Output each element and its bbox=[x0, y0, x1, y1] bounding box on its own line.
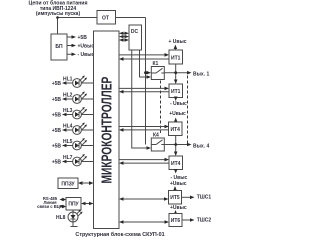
wire: OT to relay rail bbox=[116, 17, 146, 19]
svg-text:HL8: HL8 bbox=[56, 215, 66, 221]
wire: RS485 to PPU line2 bbox=[62, 206, 64, 208]
led HL8 bbox=[56, 210, 83, 227]
wire: IT5 up arrow bbox=[174, 189, 176, 192]
svg-text:Вых. 1: Вых. 1 bbox=[193, 72, 209, 78]
wire: dashed continuation relays bbox=[160, 81, 162, 134]
wire: RS485 to PPU line1 bbox=[62, 199, 64, 201]
led HL7 bbox=[52, 154, 94, 166]
svg-text:+5В: +5В bbox=[52, 128, 62, 134]
wire: IT1 bottom to out node to IT2 top bbox=[175, 64, 177, 80]
svg-text:DC: DC bbox=[131, 29, 139, 35]
svg-text:+5В: +5В bbox=[52, 143, 62, 149]
wire: PPU-MCU bbox=[85, 203, 91, 205]
svg-text:+5В: +5В bbox=[52, 112, 62, 118]
svg-text:HL7: HL7 bbox=[63, 155, 73, 161]
ground bbox=[71, 226, 78, 228]
svg-text:ОТ: ОТ bbox=[102, 16, 109, 22]
svg-text:ППУ: ППУ bbox=[68, 202, 79, 208]
block PPZU bbox=[58, 178, 78, 189]
wire: BP out +Uvys bbox=[67, 45, 72, 47]
svg-text:HL2: HL2 bbox=[63, 93, 73, 99]
wire: MCU to IT2 control bbox=[119, 87, 165, 89]
wire: K1 entry dot from OT rail bbox=[146, 72, 148, 74]
svg-text:- Uвыс: - Uвыс bbox=[78, 52, 95, 58]
svg-text:+Uвыс: +Uвыс bbox=[78, 43, 95, 49]
svg-text:- Uвыс: - Uвыс bbox=[170, 101, 187, 107]
svg-text:ТШС1: ТШС1 bbox=[197, 195, 212, 201]
block IT4 bbox=[169, 156, 183, 170]
wire: MCU to IT4 control bbox=[119, 159, 165, 161]
wire: IT2 to MCU status bbox=[123, 91, 169, 93]
svg-text:HL1: HL1 bbox=[63, 77, 73, 83]
svg-text:+5В: +5В bbox=[52, 81, 62, 87]
block BP bbox=[51, 34, 67, 60]
wire: IT4 down arrow bbox=[175, 169, 177, 172]
led HL1 bbox=[52, 76, 94, 88]
svg-text:связи с ВЦП: связи с ВЦП bbox=[37, 204, 63, 209]
wire: MCU-DC bus arrows bbox=[119, 32, 129, 42]
block relay K4 bbox=[151, 138, 164, 151]
block IT2 bbox=[169, 84, 183, 98]
svg-text:+5В: +5В bbox=[52, 159, 62, 165]
wire: IT3 bottom to node to IT4 top bbox=[175, 136, 177, 153]
svg-text:ИТ5: ИТ5 bbox=[170, 195, 180, 201]
svg-text:+Uвыс: +Uвыс bbox=[169, 111, 186, 117]
block microcontroller U1 bbox=[94, 31, 120, 229]
svg-text:МИКРОКОНТРОЛЛЕР: МИКРОКОНТРОЛЛЕР bbox=[99, 77, 115, 184]
led HL2 bbox=[52, 92, 94, 104]
wire: IT3 up arrow bbox=[175, 121, 177, 124]
led HL4 bbox=[52, 123, 94, 135]
block IT3 bbox=[169, 122, 183, 136]
svg-text:+Uвыс: +Uвыс bbox=[170, 181, 187, 187]
block DC converter bbox=[129, 25, 142, 50]
svg-text:ИТ6: ИТ6 bbox=[171, 218, 181, 224]
svg-text:ТШС2: ТШС2 bbox=[197, 217, 212, 223]
svg-text:+ Uвыс: + Uвыс bbox=[169, 39, 187, 45]
svg-text:Вых. 4: Вых. 4 bbox=[193, 143, 209, 149]
wire: DC right pin down to K1 bbox=[140, 50, 148, 77]
led HL3 bbox=[52, 107, 94, 119]
wire: relay control rail (vertical from OT) bbox=[145, 18, 147, 145]
block IT6 bbox=[169, 214, 182, 227]
wire: BP out -Uvys bbox=[67, 53, 72, 55]
svg-text:ИТ4: ИТ4 bbox=[170, 127, 180, 133]
wire: Vyh1 output bbox=[164, 72, 187, 74]
wire: DC left pin down to K4 bbox=[132, 50, 147, 148]
svg-text:HL3: HL3 bbox=[63, 108, 73, 114]
wire: TShS2 output bbox=[182, 219, 191, 221]
svg-text:HL4: HL4 bbox=[63, 124, 73, 130]
wire: Vyh4 output bbox=[164, 144, 187, 146]
wire: MCU to IT1 control bbox=[119, 54, 165, 56]
block IT1 bbox=[169, 50, 183, 64]
block PPU bbox=[66, 198, 81, 211]
svg-text:+5В: +5В bbox=[52, 97, 62, 103]
node: junction ch4 bbox=[174, 143, 177, 146]
wire: IT4 to MCU status bbox=[123, 162, 169, 164]
block relay K1 bbox=[151, 67, 164, 80]
wire: PPZU-MCU bbox=[82, 182, 91, 184]
wire: MCU to IT5 bbox=[123, 198, 165, 200]
svg-text:ИТ4: ИТ4 bbox=[171, 161, 181, 167]
block IT5 bbox=[169, 191, 182, 205]
svg-text:HL5: HL5 bbox=[63, 139, 73, 145]
wire: caption to BP bbox=[57, 17, 59, 35]
wire: MCU to IT6 bbox=[123, 221, 165, 223]
svg-text:ИТ1: ИТ1 bbox=[171, 89, 181, 95]
wire: dashed continuation outputs bbox=[187, 76, 189, 145]
svg-text:ИТ1: ИТ1 bbox=[171, 55, 181, 61]
svg-text:БП: БП bbox=[55, 44, 63, 50]
wire: MCU to IT3 control bbox=[119, 126, 165, 128]
svg-text:Структурная блок-схема СКУП-01: Структурная блок-схема СКУП-01 bbox=[75, 231, 164, 238]
svg-text:+5В: +5В bbox=[78, 35, 88, 41]
led HL5 bbox=[52, 138, 94, 150]
node: junction ch1 bbox=[174, 71, 177, 74]
wire: IT1 to MCU status bbox=[123, 58, 169, 60]
wire: IT2 down arrow bbox=[175, 98, 177, 99]
wire: TShS1 output bbox=[182, 196, 191, 198]
wire: IT1 up arrow bbox=[174, 49, 176, 51]
svg-text:(импульсы пуска): (импульсы пуска) bbox=[36, 11, 81, 17]
wire: IT3 to MCU status bbox=[123, 129, 169, 131]
svg-text:+Uвыс: +Uвыс bbox=[170, 205, 187, 211]
svg-text:ППЗУ: ППЗУ bbox=[61, 181, 75, 187]
wire: IT6 up arrow bbox=[175, 212, 177, 215]
wire: caption junction to OT bbox=[58, 17, 98, 19]
wire: BP out +5V bbox=[67, 36, 72, 38]
block OT bbox=[97, 11, 116, 25]
